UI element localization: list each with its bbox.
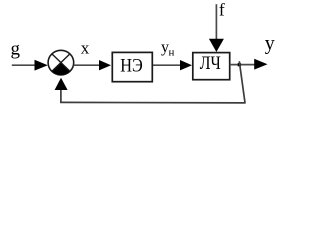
block NE (nonlinear element) (112, 52, 152, 81)
arrowhead into NE block (99, 60, 111, 70)
feedback wire: left riser up to summer (60, 90, 62, 104)
svg-text:f: f (219, 0, 225, 20)
wire g input line (12, 64, 36, 66)
wire summer to NE block (74, 64, 100, 66)
arrowhead into summing junction (35, 60, 48, 71)
block LCh (linear part) (193, 53, 230, 80)
wire output from LCh (230, 64, 255, 66)
arrowhead feedback into summer bottom (55, 78, 68, 90)
svg-text:НЭ: НЭ (120, 55, 143, 76)
arrowhead into LCh block (180, 60, 192, 70)
svg-text:x: x (81, 38, 90, 57)
wire f input vertical (215, 4, 217, 40)
summing junction (circle with X, lower sector filled) (48, 50, 74, 75)
junction dot at feedback tap (238, 63, 241, 66)
feedback wire: bottom horizontal (60, 101, 245, 104)
svg-text:y: y (265, 32, 275, 54)
svg-text:н: н (169, 47, 175, 59)
feedback wire: slanted vertical drop at output tap (239, 61, 245, 103)
arrowhead f into LCh block top (209, 39, 224, 52)
wire NE to LCh block (153, 64, 181, 66)
svg-text:g: g (11, 39, 21, 60)
arrowhead output (254, 59, 267, 70)
svg-text:ЛЧ: ЛЧ (200, 53, 221, 74)
